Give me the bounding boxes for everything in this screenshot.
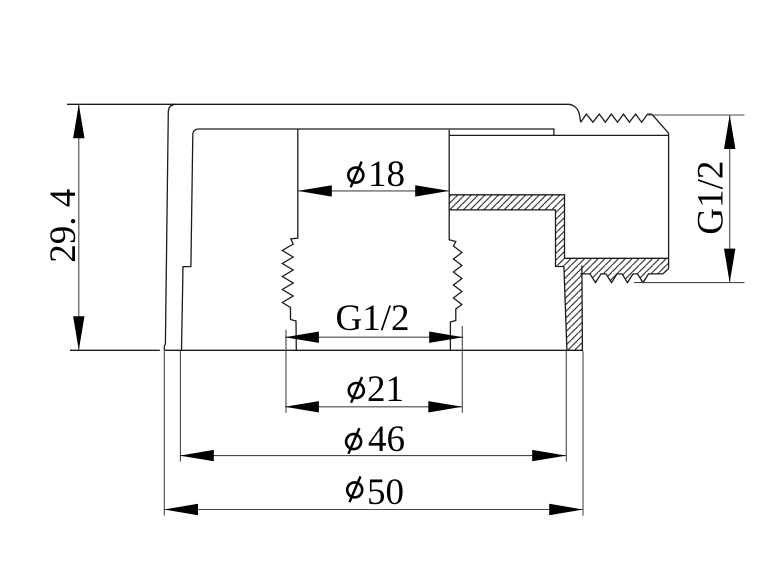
dome inner left wall	[182, 135, 193, 350]
extension right G1/2 bottom	[634, 282, 745, 284]
svg-text:46: 46	[368, 419, 405, 460]
arrow 29.4 up	[73, 104, 84, 138]
label Ø21	[349, 369, 404, 410]
left bore line and internal thread	[282, 129, 298, 350]
label Ø18	[348, 154, 405, 195]
dim G1/2 middle line	[285, 336, 463, 338]
arrow Ø46 left	[180, 450, 214, 461]
hatch: partition + pipe bottom wall + skirt	[449, 195, 668, 350]
right bore line and internal thread	[449, 130, 462, 351]
label Ø46	[346, 419, 405, 460]
pipe bore bottom edge	[565, 257, 669, 259]
extension Ø21/G1/2 left	[285, 330, 287, 413]
extension Ø50 right	[582, 351, 584, 516]
label Ø50	[347, 472, 404, 513]
extension Ø50 left	[163, 351, 165, 516]
arrow Ø46 right	[532, 450, 566, 461]
male thread top profile	[581, 114, 669, 133]
arrow Ø21 left	[285, 401, 319, 412]
arrow Ø18 left	[298, 185, 332, 196]
body top edge with 29.4 extension	[67, 104, 581, 122]
partition band bottom edge	[449, 210, 567, 350]
dome outer left wall	[164, 104, 176, 350]
base line with extension	[70, 349, 583, 351]
extension Ø46 right	[565, 351, 567, 462]
svg-text:29. 4: 29. 4	[43, 189, 84, 263]
arrow right G1/2 up	[724, 115, 735, 149]
svg-text:18: 18	[368, 154, 405, 195]
dim Ø50 line	[164, 509, 583, 511]
dim Ø46 line	[180, 455, 566, 457]
dim 29.4 line	[78, 104, 80, 350]
arrow Ø18 right	[415, 185, 449, 196]
male thread bottom profile	[580, 274, 663, 283]
arrow right G1/2 down	[724, 249, 735, 283]
dome inner ceiling	[193, 129, 554, 135]
svg-text:G1/2: G1/2	[336, 298, 410, 339]
pipe end face	[668, 133, 670, 268]
svg-text:50: 50	[367, 472, 404, 513]
arrow Ø21 right	[428, 401, 462, 412]
arrow G1/2 left	[285, 332, 319, 343]
extension right G1/2 top	[648, 114, 745, 116]
dim right G1/2 line	[729, 115, 731, 283]
skirt column right edge	[581, 266, 584, 351]
extension Ø21/G1/2 right	[461, 326, 463, 413]
arrow Ø50 left	[164, 504, 198, 515]
svg-text:G1/2: G1/2	[691, 161, 732, 235]
arrow G1/2 right	[429, 332, 463, 343]
svg-text:21: 21	[367, 369, 404, 410]
pipe bore top line	[449, 134, 668, 136]
arrow 29.4 down	[73, 316, 84, 350]
hatched section regions	[449, 195, 668, 350]
pipe bottom chamfer	[663, 269, 669, 274]
dim Ø18 line	[298, 190, 449, 192]
partition band top edge	[449, 195, 564, 258]
arrow Ø50 right	[549, 504, 583, 515]
extension Ø46 left	[179, 351, 181, 462]
dim Ø21 line	[285, 406, 462, 408]
